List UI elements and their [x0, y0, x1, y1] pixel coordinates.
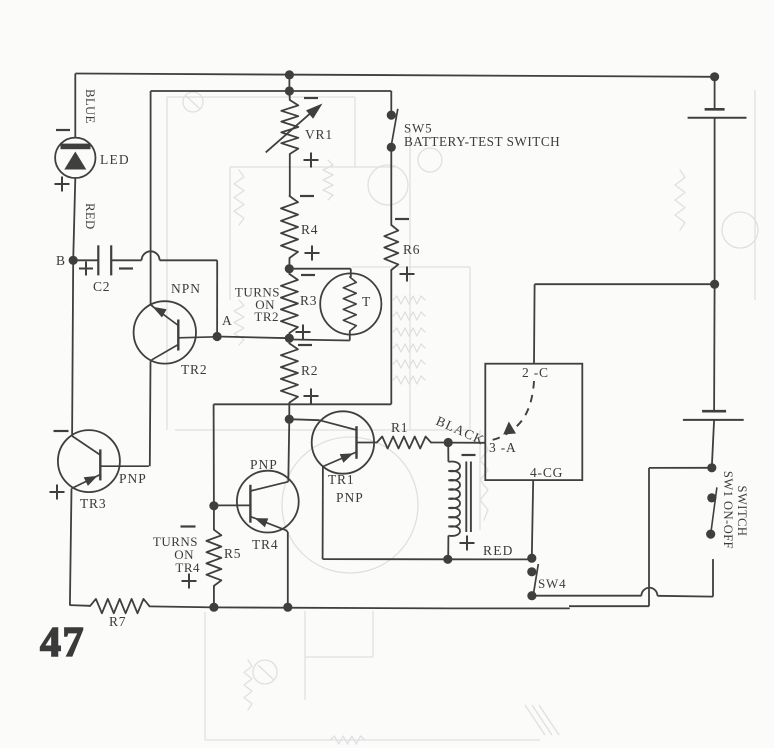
svg-text:SWITCH: SWITCH	[735, 486, 749, 537]
label minus R2 top	[298, 344, 312, 346]
label plus TR3	[50, 491, 65, 493]
svg-text:BATTERY-TEST SWITCH: BATTERY-TEST SWITCH	[404, 134, 560, 149]
relay dashed wiper	[492, 381, 534, 440]
wire TR3 emitter down	[70, 489, 72, 606]
label minus above LED	[56, 129, 70, 131]
wire R1 to relay box	[448, 442, 485, 444]
label minus R6	[395, 218, 409, 220]
node R5 top junction	[209, 501, 218, 510]
svg-text:3 -A: 3 -A	[489, 440, 517, 455]
ghost show-through traces (decorative)	[166, 97, 168, 430]
label plus left of C2	[79, 268, 93, 270]
node bottom rail R5	[209, 603, 218, 612]
label plus R3 bottom	[296, 331, 311, 333]
svg-text:R6: R6	[403, 242, 420, 257]
svg-text:NPN: NPN	[171, 281, 201, 296]
label plus below LED	[55, 183, 70, 185]
wire A to R3 junction	[217, 337, 289, 339]
svg-text:B: B	[56, 253, 66, 268]
transformer T1 primary coil	[447, 443, 449, 462]
svg-text:C2: C2	[93, 279, 110, 294]
svg-text:VR1: VR1	[305, 127, 333, 142]
svg-text:R5: R5	[224, 546, 241, 561]
wire second rail	[151, 90, 392, 92]
label plus R6	[400, 273, 415, 275]
capacitor C2	[73, 259, 98, 261]
node bottom rail TR4	[283, 603, 292, 612]
label minus R4	[300, 195, 314, 197]
label plus VR1	[304, 159, 319, 161]
label minus right of C2	[119, 267, 133, 269]
node SW1 top	[707, 463, 716, 472]
label plus coil	[460, 542, 475, 544]
svg-text:TR1: TR1	[328, 472, 354, 487]
resistor R7	[90, 599, 149, 613]
svg-text:A: A	[222, 313, 232, 328]
node R1 right	[444, 438, 453, 447]
node A	[213, 332, 222, 341]
node battery mid	[710, 280, 719, 289]
wire C2 to node A (hop over rail)	[111, 259, 141, 261]
switch SW5	[387, 111, 396, 120]
wire SW5 to R6	[390, 147, 392, 225]
node B	[69, 256, 78, 265]
wire 2-C to battery mid	[533, 284, 536, 364]
wire left drop to bottom rail	[648, 468, 650, 606]
node R3-R2 junction	[285, 334, 294, 343]
svg-text:SW1 ON-OFF: SW1 ON-OFF	[721, 471, 735, 549]
wire TR1 base	[289, 419, 319, 420]
node second rail junction	[285, 86, 294, 95]
transistor TR4	[237, 471, 299, 533]
svg-text:T: T	[362, 294, 371, 309]
wire R6 to bottom link	[390, 270, 392, 404]
wire 4-CG down	[532, 480, 533, 558]
battery B1	[705, 108, 725, 111]
svg-text:2 -C: 2 -C	[522, 365, 549, 380]
wire coil bottom to SW4	[448, 558, 532, 560]
wire TR1 emitter to coil bottom	[323, 558, 448, 560]
potentiometer VR1	[288, 91, 290, 100]
svg-text:TR2: TR2	[181, 362, 207, 377]
wire second rail left drop	[150, 91, 152, 305]
svg-text:47: 47	[40, 620, 85, 666]
svg-text:LED: LED	[100, 152, 130, 167]
svg-text:R2: R2	[301, 363, 318, 378]
resistor R3	[288, 269, 290, 274]
wire SW1 top to left drop	[649, 467, 712, 469]
svg-text:RED: RED	[483, 543, 514, 558]
node coil bottom	[443, 555, 452, 564]
wire SW4 to SW1	[532, 595, 642, 597]
wire bottom rail	[149, 606, 569, 608]
thermistor T	[289, 268, 351, 270]
transistor TR2	[134, 301, 196, 363]
switch SW1	[707, 493, 716, 502]
wire R2-R6 bottom link	[214, 403, 392, 405]
label plus R4	[305, 252, 320, 254]
svg-text:SW4: SW4	[538, 576, 566, 591]
wire TR4 collector up	[288, 419, 289, 482]
LED	[55, 138, 95, 178]
wire bottom rail left	[70, 604, 90, 607]
wire mid to battery B2	[713, 284, 716, 411]
wire TR4 emitter down	[286, 530, 288, 532]
wire TR2 collector down rail	[151, 360, 152, 362]
wire second rail to SW5	[390, 91, 392, 115]
svg-text:TR4: TR4	[252, 537, 278, 552]
wire to battery B1	[714, 77, 716, 110]
resistor R5	[213, 506, 215, 530]
svg-text:PNP: PNP	[119, 471, 147, 486]
node top rail junction	[285, 70, 294, 79]
switch SW4	[527, 554, 536, 563]
svg-text:TR2: TR2	[254, 309, 279, 324]
svg-text:R3: R3	[300, 293, 317, 308]
resistor R2	[288, 338, 290, 343]
wire R2 bottom to TR1 node	[288, 404, 290, 419]
label minus R5	[181, 525, 196, 527]
wire top rail	[75, 74, 714, 77]
wire B1 to mid node	[714, 118, 716, 285]
svg-text:RED: RED	[83, 203, 97, 230]
node top right corner	[710, 72, 719, 81]
relay unit box	[485, 364, 582, 480]
wire TR1 emitter down	[322, 467, 324, 560]
wire TR4 base drop	[213, 404, 215, 506]
label minus TR3	[54, 430, 69, 432]
node R4-R3 junction	[285, 264, 294, 273]
svg-text:4-CG: 4-CG	[530, 465, 563, 480]
svg-text:PNP: PNP	[336, 490, 364, 505]
svg-text:R4: R4	[301, 222, 318, 237]
wire LED to B	[73, 178, 75, 260]
svg-text:R1: R1	[391, 420, 408, 435]
transistor TR1	[312, 411, 374, 473]
wire TR2 emitter up rail	[150, 91, 152, 305]
label plus R5	[182, 580, 197, 582]
relay wiper arrow	[503, 422, 516, 435]
wire VR1 column tie	[288, 75, 290, 91]
transistor TR3	[58, 430, 120, 492]
label minus VR1	[304, 97, 318, 99]
svg-text:TR4: TR4	[175, 560, 200, 575]
svg-text:PNP: PNP	[250, 457, 278, 472]
svg-text:TR3: TR3	[80, 496, 106, 511]
node TR1 base junction	[285, 415, 294, 424]
svg-text:BLUE: BLUE	[83, 89, 97, 124]
resistor R1	[377, 437, 431, 449]
label plus R2	[304, 395, 319, 397]
wire B to TR3	[72, 260, 73, 436]
label minus R3	[301, 274, 315, 276]
svg-text:R7: R7	[109, 614, 126, 629]
resistor R6	[384, 225, 398, 270]
label minus coil	[462, 454, 476, 456]
resistor R4	[281, 196, 298, 258]
wire B2 to SW1	[712, 420, 714, 468]
wire LED top lead	[74, 74, 76, 139]
battery B2	[702, 410, 726, 413]
